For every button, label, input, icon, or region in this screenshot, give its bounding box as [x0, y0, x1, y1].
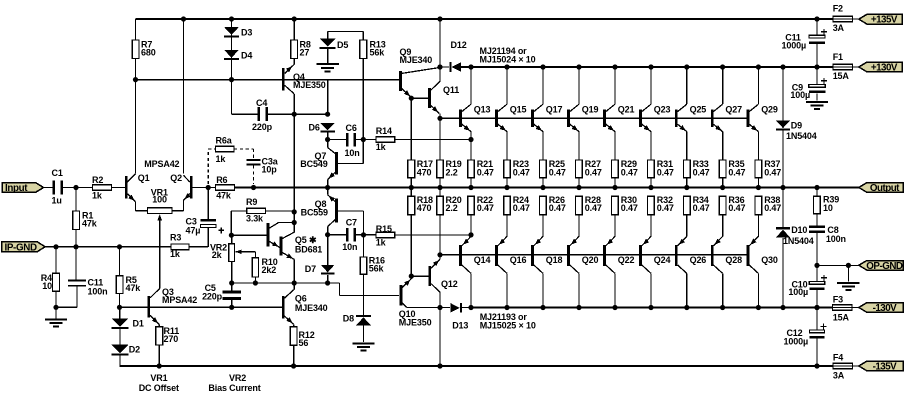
svg-text:R2: R2: [92, 175, 103, 185]
svg-text:270: 270: [164, 334, 179, 344]
svg-text:-130V: -130V: [873, 303, 898, 314]
svg-text:DC Offset: DC Offset: [139, 383, 179, 393]
svg-text:1N5404: 1N5404: [786, 131, 817, 141]
svg-text:2.2: 2.2: [446, 203, 458, 213]
svg-text:Q12: Q12: [441, 279, 458, 289]
svg-text:D10: D10: [791, 225, 807, 235]
svg-text:Q19: Q19: [582, 105, 599, 115]
svg-text:D1: D1: [133, 318, 144, 328]
svg-text:BD681: BD681: [295, 244, 322, 254]
svg-text:BC559: BC559: [301, 207, 328, 217]
svg-text:100µ: 100µ: [790, 90, 810, 100]
svg-text:-135V: -135V: [873, 362, 898, 373]
svg-text:1000µ: 1000µ: [784, 336, 808, 346]
svg-text:Q21: Q21: [618, 105, 635, 115]
svg-text:220p: 220p: [202, 291, 223, 301]
svg-text:1k: 1k: [170, 249, 181, 259]
svg-text:C6: C6: [346, 123, 357, 133]
svg-text:Q29: Q29: [761, 105, 778, 115]
svg-text:0.47: 0.47: [585, 167, 602, 177]
svg-text:2k: 2k: [212, 250, 223, 260]
svg-text:0.47: 0.47: [764, 203, 781, 213]
svg-text:10: 10: [42, 281, 52, 291]
svg-text:100n: 100n: [826, 234, 846, 244]
svg-text:D5: D5: [337, 40, 348, 50]
svg-text:10: 10: [823, 203, 833, 213]
svg-text:R3: R3: [170, 232, 181, 242]
svg-text:Q2: Q2: [170, 173, 182, 183]
svg-text:D12: D12: [451, 40, 467, 50]
svg-text:Q22: Q22: [618, 255, 635, 265]
svg-text:1k: 1k: [92, 190, 103, 200]
svg-text:15A: 15A: [833, 312, 850, 322]
svg-text:1000µ: 1000µ: [782, 40, 806, 50]
svg-text:MJE350: MJE350: [399, 317, 432, 327]
svg-text:0.47: 0.47: [621, 203, 638, 213]
svg-text:0.47: 0.47: [549, 167, 566, 177]
svg-text:47k: 47k: [126, 283, 142, 293]
svg-text:D6: D6: [309, 122, 320, 132]
svg-text:Q11: Q11: [443, 85, 459, 95]
svg-text:1k: 1k: [216, 154, 227, 164]
svg-text:Q15: Q15: [510, 105, 527, 115]
svg-text:MPSA42: MPSA42: [162, 295, 197, 305]
svg-text:10n: 10n: [345, 148, 360, 158]
svg-text:BC549: BC549: [300, 159, 327, 169]
svg-text:Q24: Q24: [654, 255, 671, 265]
svg-text:0.47: 0.47: [477, 167, 494, 177]
svg-text:0.47: 0.47: [728, 167, 745, 177]
svg-text:Q20: Q20: [582, 255, 599, 265]
svg-text:Q18: Q18: [546, 255, 563, 265]
svg-text:2.2: 2.2: [446, 167, 458, 177]
svg-text:R9: R9: [246, 197, 257, 207]
svg-text:47k: 47k: [82, 218, 98, 228]
svg-text:MJ15024 × 10: MJ15024 × 10: [480, 55, 536, 65]
svg-text:0.47: 0.47: [621, 167, 638, 177]
svg-text:C1: C1: [52, 168, 63, 178]
svg-text:0.47: 0.47: [693, 203, 710, 213]
svg-text:0.47: 0.47: [657, 203, 674, 213]
svg-text:2k2: 2k2: [262, 265, 277, 275]
svg-text:OP-GND: OP-GND: [866, 261, 903, 272]
svg-text:F3: F3: [833, 294, 843, 304]
svg-text:F2: F2: [833, 3, 843, 13]
svg-text:27: 27: [300, 48, 310, 58]
svg-text:MJE350: MJE350: [293, 80, 326, 90]
svg-text:680: 680: [141, 47, 156, 57]
svg-text:R6a: R6a: [216, 135, 233, 145]
svg-text:R6: R6: [216, 175, 227, 185]
svg-text:IP-GND: IP-GND: [5, 242, 37, 253]
svg-text:1u: 1u: [52, 195, 62, 205]
svg-text:D4: D4: [241, 50, 252, 60]
svg-text:15A: 15A: [833, 71, 850, 81]
svg-text:F1: F1: [833, 52, 843, 62]
svg-text:D8: D8: [343, 313, 354, 323]
svg-text:VR1: VR1: [150, 373, 167, 383]
svg-text:100n: 100n: [88, 286, 108, 296]
svg-text:Q17: Q17: [546, 105, 563, 115]
svg-text:Q1: Q1: [138, 173, 150, 183]
svg-text:Q26: Q26: [690, 255, 707, 265]
svg-text:0.47: 0.47: [764, 167, 781, 177]
svg-text:F4: F4: [833, 353, 843, 363]
svg-text:56k: 56k: [369, 263, 385, 273]
svg-text:47µ: 47µ: [186, 225, 201, 235]
svg-text:C4: C4: [256, 98, 267, 108]
svg-text:Q27: Q27: [725, 105, 742, 115]
svg-text:R15: R15: [376, 224, 392, 234]
svg-text:+135V: +135V: [871, 15, 898, 26]
svg-text:0.47: 0.47: [477, 203, 494, 213]
svg-text:0.47: 0.47: [549, 203, 566, 213]
svg-text:VR2: VR2: [229, 373, 246, 383]
svg-text:0.47: 0.47: [513, 203, 530, 213]
svg-text:1N5404: 1N5404: [783, 236, 814, 246]
svg-text:Q28: Q28: [725, 255, 742, 265]
svg-text:56: 56: [299, 338, 309, 348]
svg-text:Q13: Q13: [474, 105, 491, 115]
svg-text:Q14: Q14: [474, 255, 491, 265]
svg-text:R14: R14: [376, 126, 392, 136]
svg-text:3.3k: 3.3k: [246, 214, 264, 224]
svg-text:D13: D13: [452, 320, 468, 330]
svg-text:D7: D7: [305, 264, 316, 274]
svg-text:Bias Current: Bias Current: [208, 383, 260, 393]
svg-text:0.47: 0.47: [657, 167, 674, 177]
svg-text:47k: 47k: [216, 191, 232, 201]
svg-text:1k: 1k: [376, 142, 387, 152]
svg-text:470: 470: [417, 167, 432, 177]
svg-text:56k: 56k: [370, 48, 386, 58]
svg-text:D9: D9: [791, 120, 802, 130]
svg-text:0.47: 0.47: [585, 203, 602, 213]
svg-text:Input: Input: [5, 183, 28, 194]
svg-text:100: 100: [152, 195, 167, 205]
svg-text:0.47: 0.47: [513, 167, 530, 177]
svg-text:0.47: 0.47: [728, 203, 745, 213]
svg-text:MJE340: MJE340: [400, 55, 433, 65]
svg-text:MPSA42: MPSA42: [144, 159, 179, 169]
svg-text:Q23: Q23: [654, 105, 671, 115]
svg-text:MJE340: MJE340: [295, 303, 328, 313]
svg-text:220p: 220p: [252, 122, 273, 132]
svg-text:Output: Output: [870, 183, 900, 194]
svg-text:Q16: Q16: [510, 255, 527, 265]
svg-text:10p: 10p: [262, 164, 278, 174]
svg-text:Q25: Q25: [690, 105, 707, 115]
svg-text:3A: 3A: [833, 370, 845, 380]
svg-text:D2: D2: [129, 344, 140, 354]
svg-text:1k: 1k: [376, 237, 387, 247]
svg-text:+130V: +130V: [871, 63, 898, 74]
svg-text:0.47: 0.47: [693, 167, 710, 177]
svg-text:C7: C7: [346, 217, 357, 227]
svg-text:MJ15025 × 10: MJ15025 × 10: [480, 320, 536, 330]
svg-text:470: 470: [417, 203, 432, 213]
svg-text:Q30: Q30: [761, 255, 778, 265]
svg-text:10n: 10n: [342, 242, 357, 252]
svg-text:D3: D3: [241, 28, 252, 38]
svg-text:100µ: 100µ: [788, 287, 808, 297]
svg-text:3A: 3A: [833, 23, 845, 33]
